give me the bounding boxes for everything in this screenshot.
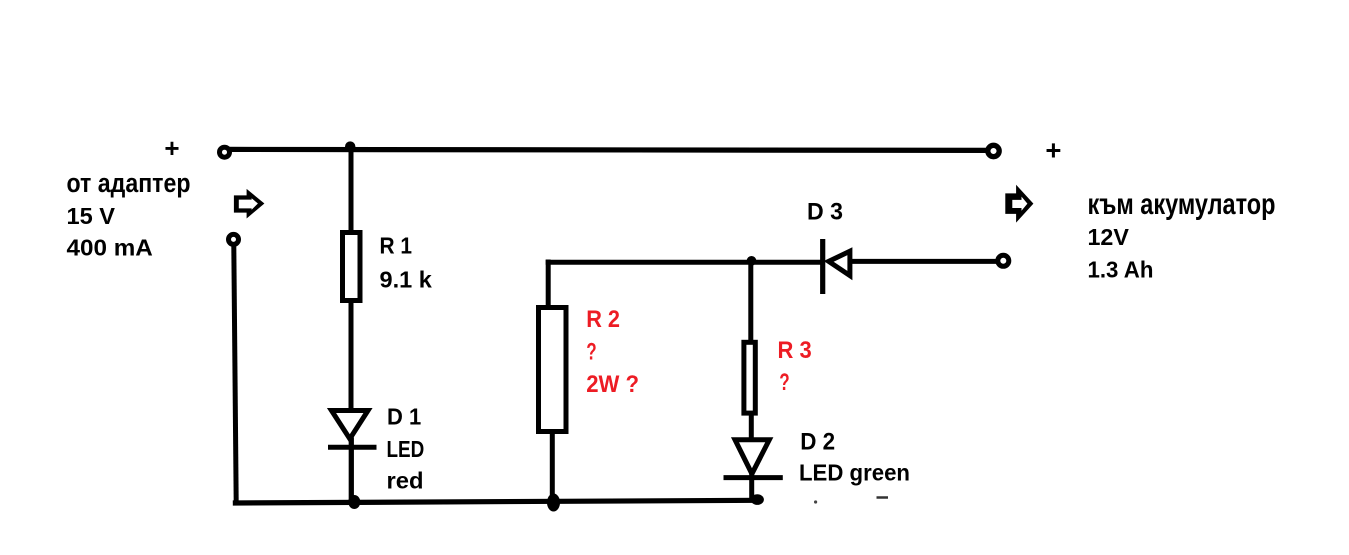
svg-text:R 2: R 2 <box>586 306 620 333</box>
stray mark dash near LED green <box>877 496 889 499</box>
wire R1 bottom lead to D1 <box>349 300 354 414</box>
D2 cathode bar <box>724 475 783 480</box>
svg-text:red: red <box>387 468 424 494</box>
resistor R2 <box>539 308 567 432</box>
svg-text:от адаптер: от адаптер <box>67 168 191 198</box>
wire top bus from left terminal to right terminal <box>225 149 993 150</box>
terminal circle mid-right <box>998 255 1009 266</box>
wire left return lead down <box>234 246 236 503</box>
terminal circle lower-left <box>229 234 239 244</box>
arrow icon right (to battery) <box>1005 185 1033 223</box>
svg-text:R 1: R 1 <box>380 232 413 258</box>
svg-text:към акумулатор: към акумулатор <box>1088 188 1276 221</box>
diode D3 cathode bar <box>820 239 825 294</box>
svg-text:+: + <box>1045 134 1061 165</box>
D1 cathode bar <box>328 445 377 450</box>
resistor R3 <box>744 342 755 413</box>
node D2 bottom junction <box>751 494 764 505</box>
wire R1 top lead <box>349 150 354 233</box>
wire D1 cathode lead down to bottom bus <box>349 436 354 503</box>
resistor R1 <box>343 233 361 301</box>
wire D3 anode to right terminal <box>850 259 996 264</box>
svg-text:LED: LED <box>387 436 425 462</box>
node D1 bottom junction <box>348 495 360 509</box>
svg-text:?: ? <box>586 339 596 366</box>
wire R3 top lead <box>748 261 753 344</box>
terminal circle top-left <box>220 147 230 157</box>
wire bottom bus <box>233 500 759 503</box>
arrow icon left (from adapter) <box>234 189 265 219</box>
stray mark dot <box>814 500 817 503</box>
svg-text:2W ?: 2W ? <box>586 371 639 398</box>
svg-text:12V: 12V <box>1088 224 1130 250</box>
LED D1 triangle <box>332 411 369 439</box>
svg-text:400 mA: 400 mA <box>67 235 153 261</box>
wire R3 bottom lead to D2 <box>749 412 754 443</box>
diode D3 triangle <box>829 251 850 275</box>
wire D1 anode tip segment <box>349 438 354 503</box>
svg-text:LED green: LED green <box>799 460 910 486</box>
svg-text:9.1 k: 9.1 k <box>380 267 433 293</box>
svg-text:D 1: D 1 <box>387 403 421 429</box>
node mid junction above R3 <box>747 256 757 266</box>
wire R2 top corner lead <box>546 260 551 309</box>
svg-text:R 3: R 3 <box>778 337 812 364</box>
svg-text:?: ? <box>779 369 789 396</box>
terminal circle top-right <box>988 145 999 156</box>
svg-text:D 2: D 2 <box>800 429 835 456</box>
node junction of R1 branch on top bus <box>345 141 355 151</box>
wire R2 bottom lead <box>550 430 555 503</box>
node R2 bottom junction <box>547 494 560 512</box>
svg-text:+: + <box>164 133 179 163</box>
svg-text:D 3: D 3 <box>807 198 843 225</box>
svg-text:15 V: 15 V <box>67 203 116 229</box>
LED D2 triangle <box>735 440 769 474</box>
svg-text:1.3 Ah: 1.3 Ah <box>1088 257 1154 283</box>
wire mid bus from R2 corner to D3 <box>546 260 821 265</box>
wire D2 tip lead <box>749 471 754 501</box>
